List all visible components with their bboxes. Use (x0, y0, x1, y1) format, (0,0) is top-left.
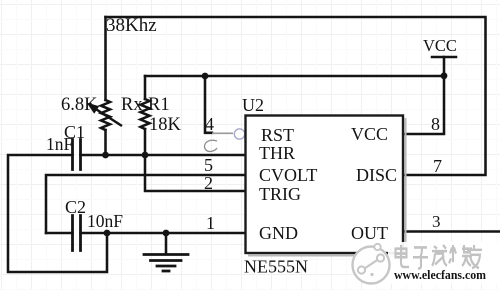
svg-text:DISC: DISC (356, 165, 397, 185)
svg-text:18K: 18K (149, 115, 182, 135)
svg-text:www.elecfans.com: www.elecfans.com (394, 267, 486, 282)
svg-text:7: 7 (433, 156, 442, 176)
svg-text:THR: THR (259, 143, 295, 163)
svg-text:10nF: 10nF (87, 211, 123, 231)
svg-text:U2: U2 (242, 95, 264, 115)
svg-text:8: 8 (431, 114, 440, 134)
svg-text:TRIG: TRIG (259, 184, 301, 204)
svg-text:6.8K: 6.8K (61, 95, 98, 115)
svg-text:Rx: Rx (121, 95, 143, 115)
svg-text:1nF: 1nF (46, 134, 74, 154)
svg-text:R1: R1 (148, 95, 170, 115)
svg-text:5: 5 (204, 155, 213, 175)
svg-text:NE555N: NE555N (244, 257, 308, 277)
svg-text:38Khz: 38Khz (106, 15, 157, 36)
svg-text:RST: RST (261, 125, 294, 145)
svg-text:4: 4 (205, 114, 214, 134)
svg-text:C2: C2 (65, 197, 86, 217)
svg-text:VCC: VCC (351, 124, 388, 144)
svg-text:3: 3 (432, 212, 441, 231)
svg-text:OUT: OUT (351, 223, 388, 243)
svg-text:CVOLT: CVOLT (259, 165, 317, 185)
svg-text:VCC: VCC (423, 36, 457, 55)
svg-text:1: 1 (206, 213, 215, 233)
svg-text:2: 2 (204, 173, 213, 193)
svg-text:GND: GND (259, 223, 298, 243)
